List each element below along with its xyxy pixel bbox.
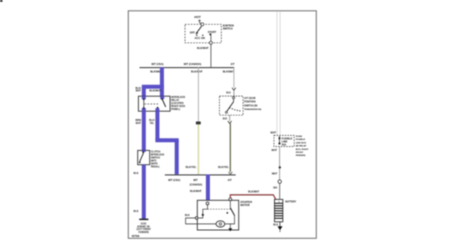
svg-text:FUSIBLE: FUSIBLE (296, 139, 306, 141)
ACC contact dot (196, 35, 197, 36)
svg-text:BLK/YEL: BLK/YEL (186, 166, 197, 169)
splice dot (279, 166, 281, 168)
wire START dot to START terminal (210, 35, 212, 41)
svg-text:(FRONT OF: (FRONT OF (137, 226, 150, 228)
starter B+ terminal (229, 198, 232, 201)
svg-text:BLK/WHT: BLK/WHT (149, 90, 161, 93)
fusible link dashed box (274, 135, 294, 146)
svg-text:BLK: BLK (185, 215, 190, 217)
wire WHT faint from top (276, 11, 278, 135)
A/T switch arm (227, 102, 234, 112)
svg-text:ACC: ACC (194, 36, 200, 40)
fusible link element (279, 137, 281, 139)
svg-text:PEDAL): PEDAL) (151, 166, 160, 169)
wire contact to motor (225, 216, 235, 224)
svg-text:PANEL): PANEL) (171, 108, 180, 111)
svg-text:A/T: A/T (230, 63, 235, 66)
interlock relay box (138, 96, 170, 111)
svg-text:30A: 30A (273, 187, 278, 190)
wire into A/T switch (233, 90, 235, 96)
svg-text:INTERLOCK: INTERLOCK (151, 155, 165, 157)
svg-text:BLK/WHT: BLK/WHT (190, 190, 202, 193)
svg-text:BLK/WHT: BLK/WHT (223, 71, 235, 74)
ignition switch rotor arm (196, 26, 201, 33)
svg-text:M/T: M/T (193, 179, 198, 182)
wire red battery cable (230, 195, 275, 199)
svg-text:LINK BOX: LINK BOX (296, 142, 307, 144)
svg-text:SWITCH (IN: SWITCH (IN (244, 104, 258, 107)
svg-text:M/T (CANADA): M/T (CANADA) (184, 63, 202, 66)
svg-text:G101: G101 (141, 224, 147, 226)
svg-text:(IN RELAY: (IN RELAY (296, 145, 307, 148)
solenoid coil (203, 209, 208, 214)
svg-text:BLK/WHT: BLK/WHT (248, 191, 260, 194)
svg-text:A/T GEAR: A/T GEAR (244, 97, 256, 100)
clutch switch top terminal (142, 151, 144, 153)
wire gray mid drop from top bus (197, 67, 199, 121)
A/T gear position switch dashed box (219, 96, 243, 115)
svg-text:BLK/WHT: BLK/WHT (197, 47, 209, 50)
wire battery to ground (279, 222, 281, 227)
svg-text:LEFT FRONT: LEFT FRONT (136, 229, 151, 231)
corner artifact mark (0, 0, 3, 2)
svg-text:(WITH: (WITH (151, 164, 158, 166)
relay fixed contact dot (157, 107, 159, 109)
svg-text:HOT: HOT (194, 15, 201, 19)
relay right pin blue stub (160, 96, 164, 99)
START contact dot (210, 34, 212, 36)
svg-text:WHT: WHT (272, 173, 278, 176)
svg-text:SWITCH: SWITCH (151, 158, 160, 160)
wire thick blue relay to second bus (steps right) (155, 111, 159, 140)
battery BAT1 (275, 199, 283, 221)
ignition switch BAT terminal circle (201, 23, 204, 26)
top bus node (140, 67, 235, 69)
wire thick blue second bus to starter (206, 175, 210, 202)
wire terminal to battery (279, 183, 281, 199)
wire thick blue horizontal jog (142, 85, 164, 89)
svg-text:B14: B14 (226, 92, 231, 95)
wire BLK/WHT thick blue: bus to interlock relay right pin (160, 67, 164, 96)
ignition switch START terminal circle (209, 41, 212, 44)
svg-text:WHT: WHT (272, 149, 278, 152)
A/T switch top terminal (233, 97, 235, 99)
svg-text:A/T: A/T (228, 179, 233, 182)
relay left pin blue stubs (142, 96, 146, 99)
svg-text:ON: ON (201, 36, 205, 40)
starter ground triangle (228, 228, 232, 231)
inline connector V mark (232, 88, 236, 90)
svg-text:(M/T): (M/T) (151, 161, 157, 163)
svg-text:SWITCH: SWITCH (223, 28, 233, 31)
clutch switch bottom terminal (139, 162, 141, 164)
starter left terminal (195, 217, 198, 220)
connector V at bus (229, 172, 233, 174)
svg-text:FUSE/: FUSE/ (296, 136, 303, 138)
wire thick blue relay to clutch switch (142, 111, 146, 150)
second bus node (165, 174, 236, 176)
svg-text:FENDER): FENDER) (296, 155, 306, 157)
svg-text:BLK: BLK (134, 172, 139, 175)
svg-text:POSITION: POSITION (244, 101, 256, 104)
svg-text:42799: 42799 (132, 234, 140, 238)
relay switch contact arm (162, 99, 166, 107)
starter motor armature (216, 221, 225, 227)
ground G101 terminal bar (139, 219, 148, 221)
svg-text:50A: 50A (282, 143, 287, 146)
svg-text:(CANADA): (CANADA) (190, 184, 203, 187)
wire HOT to ignition switch BAT terminal (200, 20, 202, 24)
A/T switch pivot (225, 111, 227, 113)
svg-text:M/T (USA): M/T (USA) (152, 63, 164, 66)
relay coil path left (143, 99, 145, 108)
svg-text:YEL: YEL (150, 123, 155, 125)
battery positive terminal circle (278, 180, 281, 183)
svg-text:BLK: BLK (273, 224, 278, 226)
svg-text:WHT: WHT (271, 132, 277, 135)
svg-text:BLK/YEL: BLK/YEL (218, 166, 229, 169)
starter solenoid S terminal (206, 202, 209, 205)
svg-text:BOX, RIGHT: BOX, RIGHT (296, 149, 309, 151)
inline connector C416 (196, 122, 201, 125)
svg-text:M/T (USA): M/T (USA) (168, 179, 180, 182)
wire ignition START terminal to top bus (210, 44, 212, 67)
svg-text:OFF: OFF (190, 31, 196, 35)
relay bottom-mid blue stub (155, 108, 159, 111)
svg-text:BLK: BLK (134, 210, 139, 213)
svg-text:B15: B15 (223, 119, 228, 121)
wire gray right drop from top bus (233, 67, 235, 87)
svg-text:FRONT: FRONT (296, 152, 304, 154)
wire out of A/T switch (229, 115, 231, 121)
svg-text:BATTERY: BATTERY (285, 201, 296, 204)
clutch interlock switch box (138, 150, 150, 164)
ON contact dot (202, 35, 203, 36)
svg-text:MOTOR: MOTOR (240, 204, 249, 207)
solenoid plunger dashed line (207, 205, 209, 209)
wire WHT fuse to battery (279, 147, 281, 180)
ignition switch SW1 dashed housing (185, 24, 221, 43)
svg-text:WHT: WHT (136, 90, 142, 92)
diagram frame border (128, 11, 316, 239)
svg-text:CLUTCH: CLUTCH (151, 152, 161, 154)
battery ground triangle (278, 226, 283, 230)
starter fixed contact dot (226, 212, 228, 214)
svg-text:BLK/WHT: BLK/WHT (191, 71, 203, 74)
wire olive to second bus (229, 124, 231, 172)
clutch switch arm (140, 153, 144, 162)
wire thick blue clutch switch to ground (142, 165, 146, 219)
wire thick blue left vertical into relay (142, 85, 146, 96)
svg-text:START: START (208, 30, 217, 34)
inline connector V mark lower (228, 121, 232, 124)
starter contact arm (229, 201, 231, 208)
starter motor box (197, 200, 238, 230)
svg-text:TRANSMISSION): TRANSMISSION) (244, 108, 261, 111)
wire pale yellow to second bus (197, 124, 199, 174)
A/T switch position dots (229, 107, 230, 108)
relay dashed actuator line (145, 103, 160, 105)
svg-text:FENDER): FENDER) (138, 232, 149, 234)
svg-text:WHT: WHT (136, 123, 142, 125)
starter internal ground stem (229, 224, 231, 228)
wire loop outside starter box (186, 218, 216, 224)
